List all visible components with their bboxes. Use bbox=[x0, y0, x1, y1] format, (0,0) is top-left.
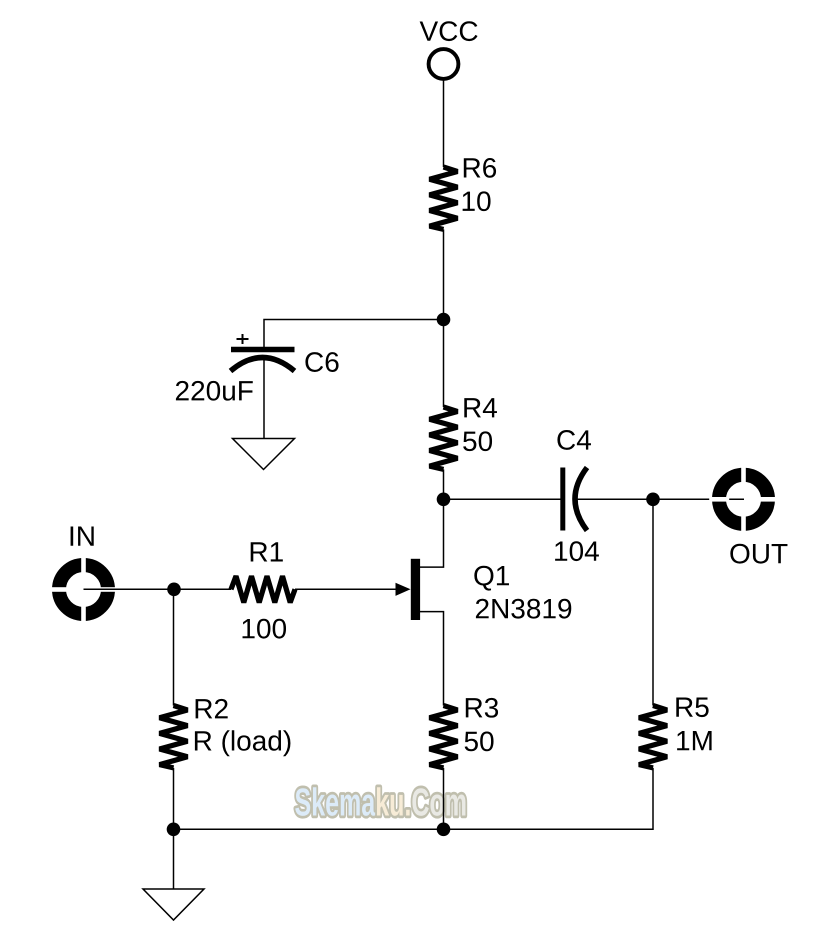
label R6 bbox=[464, 158, 496, 178]
value 2N3819 bbox=[476, 599, 571, 619]
resistor R1 bbox=[231, 576, 295, 602]
resistor R3 bbox=[430, 706, 458, 768]
channel bar bbox=[411, 559, 420, 620]
wire C4 to node C bbox=[576, 498, 654, 500]
net label IN bbox=[71, 526, 94, 545]
node VCC terminal bbox=[429, 49, 459, 79]
wire R1 to gate bbox=[295, 588, 397, 590]
net label VCC bbox=[420, 21, 478, 41]
resistor R6 bbox=[430, 167, 458, 229]
resistor R5 bbox=[639, 706, 667, 768]
junction node C bbox=[646, 493, 660, 507]
drain lead bbox=[420, 499, 444, 567]
ground (bottom) bbox=[143, 889, 204, 920]
resistor R2 bbox=[160, 706, 188, 768]
source lead bbox=[420, 612, 444, 706]
node OUT terminal bbox=[709, 465, 778, 534]
value 10 bbox=[463, 191, 491, 211]
wire R3 to node F bbox=[443, 768, 445, 829]
net label OUT bbox=[730, 544, 787, 564]
ground (C6) bbox=[233, 439, 295, 470]
junction node F bbox=[437, 823, 451, 837]
junction node D bbox=[167, 583, 181, 597]
value 50 (R3) bbox=[465, 731, 494, 751]
wire R5 to bottom rail bbox=[174, 768, 654, 829]
label R4 bbox=[464, 398, 497, 417]
label R5 bbox=[676, 698, 708, 718]
capacitor C6 bbox=[231, 334, 295, 371]
value 104 bbox=[555, 541, 599, 561]
wire C6 to ground bbox=[263, 358, 265, 439]
value 50 bbox=[463, 431, 492, 451]
wire node E to ground bbox=[173, 829, 175, 889]
junction node B bbox=[437, 493, 451, 507]
node IN terminal bbox=[49, 555, 118, 624]
label R3 bbox=[466, 698, 498, 718]
wire IN to R1 bbox=[84, 588, 232, 590]
label C6 bbox=[305, 352, 338, 372]
wire node A to R4 bbox=[443, 320, 445, 408]
resistor R4 bbox=[430, 407, 458, 469]
junction node A bbox=[437, 313, 451, 327]
label C4 bbox=[557, 430, 591, 450]
value 100 bbox=[243, 619, 286, 639]
wire node D to R2 bbox=[173, 589, 175, 705]
junction node E bbox=[167, 823, 181, 837]
label R2 bbox=[196, 699, 228, 719]
value 220uF bbox=[176, 381, 253, 401]
label R1 bbox=[251, 542, 283, 561]
transistor Q1 (JFET) bbox=[396, 499, 444, 705]
capacitor C4 bbox=[563, 468, 587, 531]
wire node A to C6 branch bbox=[264, 320, 444, 348]
wire node C to R5 bbox=[652, 499, 654, 705]
label Q1 bbox=[474, 566, 509, 591]
wire node B to C4 bbox=[444, 498, 562, 500]
value 1M bbox=[677, 731, 711, 750]
wire node C to OUT terminal bbox=[653, 498, 744, 500]
wire R2 to node E bbox=[173, 768, 175, 829]
wire R6 to node A bbox=[443, 229, 445, 319]
watermark Skemaku.Com bbox=[295, 787, 465, 816]
gate arrow bbox=[396, 583, 411, 596]
wire VCC to R6 bbox=[443, 81, 445, 168]
wire R4 to node B bbox=[443, 469, 445, 499]
value R (load) bbox=[195, 730, 291, 756]
